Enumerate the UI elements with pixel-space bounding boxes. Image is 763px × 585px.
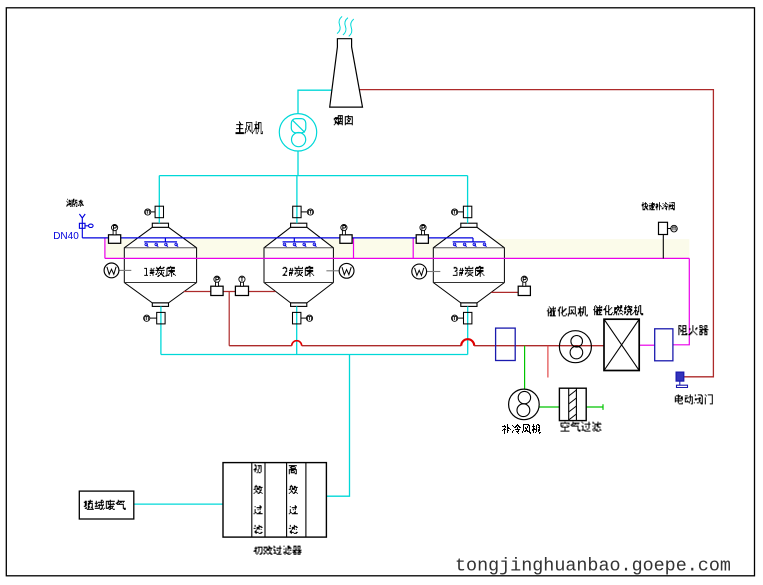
- label vessel V1: [144, 266, 176, 276]
- wire: red drain stub: [547, 346, 549, 378]
- wire: cyan down-leg to filter outlet: [326, 355, 349, 497]
- filter column text 过: [289, 506, 298, 514]
- label electric valve: [675, 395, 713, 404]
- red jump-over humps: [292, 341, 302, 346]
- wire: cyan drop vessel V3 bottom: [467, 306, 469, 354]
- temperature gauge box TG1: [235, 286, 248, 295]
- label pre-filter unit: [254, 546, 302, 554]
- quick cooling valve (top right): [659, 222, 668, 234]
- wire: cyan top manifold: [159, 175, 467, 177]
- top nozzle + motor M, vessel V3: [463, 206, 471, 218]
- wire: magenta riser near valve 2: [353, 238, 355, 259]
- faint duct tint inside vessels: [125, 248, 195, 258]
- wire: magenta right downcomer to flame arrester: [673, 258, 689, 344]
- wire: green air filter inlet: [586, 404, 603, 410]
- water valve W2 on DN40 line: [340, 235, 352, 244]
- filter column text 过: [254, 506, 263, 514]
- wire: magenta desorption header: [105, 257, 689, 259]
- sprayer header vessel V2: [283, 238, 316, 242]
- electric valve symbol: [676, 372, 684, 381]
- sprayer header vessel V1: [144, 238, 177, 242]
- wire: cyan fan to top manifold: [297, 151, 299, 176]
- wire: cyan bottom manifold: [161, 354, 468, 356]
- top nozzle + motor M, vessel V1: [155, 206, 163, 218]
- wire: cyan inlet waste gas to filter: [134, 503, 223, 505]
- wire: black drop from quick valve to magenta header: [662, 235, 664, 259]
- bottom nozzle + motor M, vessel V3: [464, 312, 472, 324]
- sprayer header vessel V3: [453, 238, 486, 242]
- vessel V2 top flange: [291, 223, 307, 227]
- pre/HEPA filter box: [223, 463, 326, 537]
- label flame arrester: [678, 326, 708, 335]
- vessel V1 (1#) body: [124, 227, 196, 303]
- wire: cyan riser vessel V3 top: [467, 176, 469, 224]
- temperature sensor W, vessel V3: [427, 271, 441, 273]
- label vessel V3: [453, 266, 485, 276]
- wire: cyan riser vessel V2 top: [296, 176, 298, 224]
- label main fan: [236, 122, 263, 134]
- chimney stack: [330, 39, 363, 107]
- fire water inlet valve: [79, 214, 85, 238]
- damper box (navy) on red main: [496, 328, 516, 360]
- bottom nozzle + motor M, vessel V1: [157, 312, 165, 324]
- filter column text 效: [254, 485, 263, 493]
- wire: cyan drop vessel V1 bottom: [160, 306, 162, 354]
- label air filter: [561, 422, 602, 431]
- wire: red drop from gauge line: [228, 292, 230, 346]
- wire: green cooling fan to air filter: [539, 406, 559, 408]
- wire: dark red chimney bypass (top and right): [359, 90, 713, 377]
- temperature sensor W, vessel V2: [326, 270, 339, 272]
- wire: cyan drop vessel V2 bottom: [296, 306, 298, 354]
- filter column text 滤: [289, 525, 298, 533]
- pressure gauge box PG2: [518, 286, 530, 295]
- label catalytic burner: [593, 306, 643, 315]
- label vessel V2: [283, 266, 315, 276]
- pressure gauge box PG1: [211, 286, 223, 295]
- vessel V3 top flange: [461, 223, 477, 227]
- filter column text 高: [289, 466, 297, 474]
- vessel V3 (3#) body: [433, 227, 504, 303]
- vessel V1 top flange: [152, 223, 168, 227]
- vessel V2 (2#) body: [264, 227, 333, 303]
- filter column text 初: [254, 465, 262, 473]
- main fan U1 (cyan): [279, 114, 316, 151]
- svg-text:tongjinghuanbao.goepe.com: tongjinghuanbao.goepe.com: [455, 556, 731, 577]
- wire: blue fire water main DN40: [82, 237, 473, 239]
- wire: red bottom main to catalytic burner: [229, 345, 604, 347]
- wire: magenta riser near valve 1: [104, 238, 106, 259]
- wire: magenta burner outlet: [639, 344, 655, 346]
- bottom nozzle + motor M, vessel V2: [293, 312, 301, 324]
- label quick cooling valve: [642, 203, 675, 210]
- label chimney: [334, 116, 353, 125]
- smoke squiggles: [336, 16, 354, 37]
- wire: magenta riser near valve 3: [412, 238, 414, 259]
- air filter (hatched): [559, 388, 586, 420]
- vessel V2 bottom flange: [291, 303, 307, 307]
- temperature sensor W, vessel V1: [119, 269, 131, 271]
- svg-text:DN40: DN40: [53, 231, 79, 242]
- wire: red gauge line vessel V1 to V2: [184, 291, 276, 293]
- cooling makeup fan U4: [509, 389, 540, 420]
- wire: cyan riser vessel V1 top: [158, 176, 160, 224]
- vessel V3 bottom flange: [461, 303, 477, 307]
- yellow duct band: [105, 239, 689, 258]
- top nozzle + motor M, vessel V2: [293, 206, 301, 218]
- filter column text 效: [289, 485, 298, 493]
- label catalytic fan: [547, 307, 588, 316]
- label cooling makeup fan: [502, 425, 541, 434]
- label fire water: [67, 199, 84, 206]
- waste gas source box: [79, 491, 134, 519]
- wire: red gauge stub right of vessel V3: [491, 291, 518, 293]
- flame arrester F1: [655, 329, 673, 361]
- water valve W1 on DN40 line: [109, 235, 121, 244]
- wire: green fresh air drop to cooling fan: [524, 346, 526, 390]
- vessel V1 bottom flange: [152, 303, 168, 307]
- water valve W3 on DN40 line: [416, 235, 428, 244]
- catalytic burner U3 with X: [604, 319, 639, 370]
- filter column text 滤: [254, 525, 263, 533]
- wire: cyan fan riser to chimney: [298, 90, 332, 114]
- catalytic fan U2: [559, 331, 591, 363]
- label flocking waste gas: [84, 500, 126, 509]
